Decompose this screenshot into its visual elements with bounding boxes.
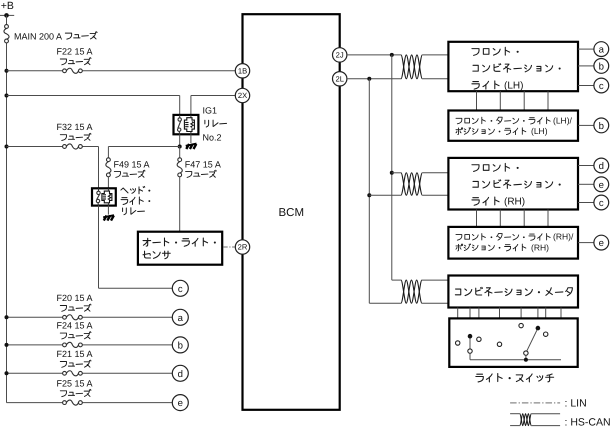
svg-text:(RH)/: (RH)/ xyxy=(553,232,574,242)
svg-text:+B: +B xyxy=(1,0,14,12)
node d xyxy=(172,365,188,381)
svg-text:2J: 2J xyxy=(336,51,344,60)
wire F32 row (bus to headlight relay switch) xyxy=(5,145,99,189)
svg-text:F21 15 A: F21 15 A xyxy=(57,349,93,359)
svg-text:a: a xyxy=(599,45,605,56)
node e xyxy=(172,395,188,411)
fuse F20 15A xyxy=(57,293,93,320)
fuse F47 15A xyxy=(177,147,221,232)
relay headlight xyxy=(92,186,150,214)
node b (turn/position LH) xyxy=(578,118,609,133)
svg-text:1B: 1B xyxy=(238,67,247,76)
ground headlight relay coil xyxy=(103,206,114,221)
svg-text:F47 15 A: F47 15 A xyxy=(185,159,221,169)
node e (turn/position RH) xyxy=(578,235,609,250)
node c (LH light) xyxy=(578,78,609,93)
wires RH light to turn/position lamps xyxy=(477,210,549,227)
legend LIN line xyxy=(510,397,587,409)
fuse F24 15A xyxy=(57,321,93,348)
wire relay node to F49 branch xyxy=(108,147,179,158)
svg-text:2R: 2R xyxy=(238,243,248,252)
connector 2R xyxy=(235,240,249,254)
connector 2X xyxy=(235,88,249,102)
svg-text:(LH): (LH) xyxy=(531,126,548,136)
light switch box xyxy=(449,318,577,367)
svg-text:(RH): (RH) xyxy=(504,197,525,208)
svg-text:(RH): (RH) xyxy=(531,242,549,252)
front turn light LH / position light LH box xyxy=(448,111,578,141)
svg-text:2L: 2L xyxy=(335,75,343,84)
svg-text:c: c xyxy=(599,81,604,92)
svg-text:d: d xyxy=(178,369,183,380)
wire CAN-L from 2L xyxy=(347,77,401,303)
wire d row xyxy=(5,371,173,375)
node d (RH light) xyxy=(578,158,609,173)
relay IG1 No.2 xyxy=(174,106,227,143)
wire LIN sensor to BCM 2R xyxy=(224,246,235,248)
svg-text:d: d xyxy=(599,161,604,172)
front turn light RH / position light RH box xyxy=(448,227,578,259)
svg-text:c: c xyxy=(178,284,183,295)
svg-text:: HS-CAN: : HS-CAN xyxy=(565,416,610,428)
twisted pair HS-CAN to front combination light RH xyxy=(369,173,448,195)
wire left vertical battery bus xyxy=(6,15,8,402)
node a (LH light) xyxy=(578,42,609,57)
svg-text:F25 15 A: F25 15 A xyxy=(57,378,93,388)
fuse MAIN 200 A (fusible link) xyxy=(4,25,97,43)
svg-text:2X: 2X xyxy=(238,91,247,100)
svg-text:e: e xyxy=(599,180,604,191)
fuse F49 15A xyxy=(106,158,150,189)
svg-text:F22 15 A: F22 15 A xyxy=(57,47,93,57)
node b (LH light) xyxy=(578,59,609,74)
svg-text:F20 15 A: F20 15 A xyxy=(57,293,93,303)
svg-text:: LIN: : LIN xyxy=(565,397,587,409)
wire e row xyxy=(7,402,173,404)
twisted pair HS-CAN to combination meter xyxy=(369,280,448,303)
fuse F32 15A xyxy=(57,122,93,149)
svg-text:BCM: BCM xyxy=(279,207,305,219)
svg-text:F49 15 A: F49 15 A xyxy=(114,159,150,169)
front combination light RH box xyxy=(448,158,578,210)
node b xyxy=(172,337,188,353)
svg-text:a: a xyxy=(178,313,184,324)
BCM box xyxy=(243,14,340,410)
fuse F22 15A xyxy=(57,47,93,74)
connector 2J xyxy=(333,48,347,62)
wire IG1 relay coil to BCM 2X xyxy=(191,96,235,115)
svg-text:No.2: No.2 xyxy=(203,133,222,143)
wire headlight relay output to node c xyxy=(99,206,173,289)
node +B battery xyxy=(0,0,14,18)
svg-text:e: e xyxy=(599,238,604,249)
wire 2X feed row (bus to IG1 relay switch) xyxy=(5,94,180,115)
fuse F25 15A xyxy=(57,378,93,405)
wire CAN-H from 2J xyxy=(347,53,401,280)
svg-text:e: e xyxy=(178,398,183,409)
svg-text:b: b xyxy=(599,121,604,132)
legend HS-CAN twisted pair xyxy=(510,414,610,428)
front combination light LH box xyxy=(448,42,578,92)
light switch label xyxy=(476,374,554,382)
wires combination meter to light switch xyxy=(458,308,561,360)
svg-text:MAIN 200 A: MAIN 200 A xyxy=(14,31,62,41)
node c (to front lights) xyxy=(172,280,188,296)
svg-text:c: c xyxy=(599,198,604,209)
auto light sensor box xyxy=(138,232,222,265)
combination meter box xyxy=(448,276,578,308)
connector 1B xyxy=(235,64,249,78)
twisted pair HS-CAN to front combination light LH xyxy=(401,55,448,79)
svg-text:IG1: IG1 xyxy=(203,106,218,116)
svg-text:F32 15 A: F32 15 A xyxy=(57,122,93,132)
node a xyxy=(172,309,188,325)
fuse F21 15A xyxy=(57,349,93,376)
svg-text:(LH): (LH) xyxy=(504,81,523,92)
ground IG1 relay coil xyxy=(186,134,197,149)
svg-text:b: b xyxy=(178,340,183,351)
svg-text:(LH)/: (LH)/ xyxy=(553,115,573,125)
light switch contacts and poles xyxy=(456,323,562,361)
wires LH light to turn/position lamps xyxy=(477,91,549,110)
wire IG1 switch output down to F32/F47 node xyxy=(178,134,182,148)
wire a row xyxy=(5,315,173,319)
connector 2L xyxy=(333,72,347,86)
node e (RH light) xyxy=(578,177,609,192)
svg-text:F24 15 A: F24 15 A xyxy=(57,321,93,331)
node c (RH light) xyxy=(578,195,609,210)
svg-text:b: b xyxy=(599,61,604,72)
wire b row xyxy=(5,343,173,347)
wire 1B feed row xyxy=(5,69,236,73)
